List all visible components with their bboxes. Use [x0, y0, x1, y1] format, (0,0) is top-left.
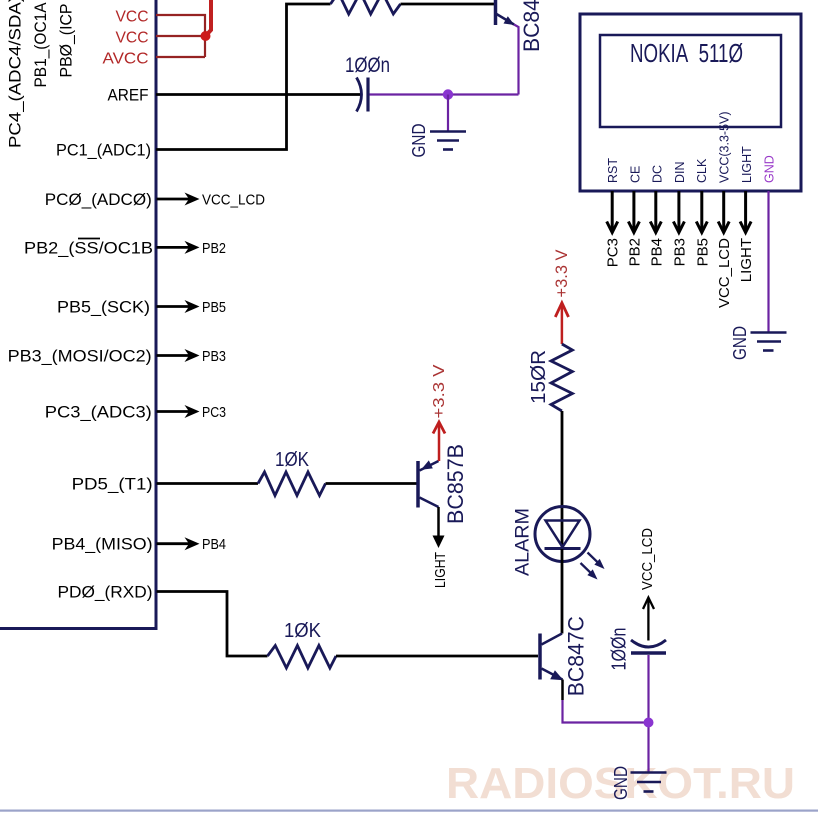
VCC net red wires — [156, 15, 205, 57]
wire R1 to Q1 base — [401, 3, 495, 6]
svg-text:VCC(3.3-5V): VCC(3.3-5V) — [718, 111, 732, 183]
svg-text:PBØ_(ICP: PBØ_(ICP — [57, 4, 76, 78]
svg-text:CE: CE — [628, 166, 642, 183]
wire Q1 emitter to AREF net (purple) — [514, 25, 519, 95]
svg-text:PB4: PB4 — [202, 536, 226, 553]
svg-text:PC3: PC3 — [202, 404, 226, 421]
svg-text:GND: GND — [409, 124, 429, 158]
arrow up to VCC_LCD — [643, 598, 654, 641]
svg-text:PB3_(MOSI/OC2): PB3_(MOSI/OC2) — [8, 347, 152, 366]
svg-text:PC3_(ADC3): PC3_(ADC3) — [45, 403, 152, 422]
svg-text:PB4: PB4 — [648, 238, 665, 266]
svg-text:VCC: VCC — [116, 30, 149, 47]
svg-text:VCC_LCD: VCC_LCD — [716, 238, 733, 308]
svg-text:PDØ_(RXD): PDØ_(RXD) — [58, 583, 153, 602]
svg-text:PB3: PB3 — [202, 348, 226, 365]
display window — [600, 35, 781, 127]
svg-text:PB2_(SS/OC1B: PB2_(SS/OC1B — [24, 238, 153, 257]
svg-text:PB1_(OC1A: PB1_(OC1A — [31, 2, 50, 88]
svg-text:PB2: PB2 — [626, 238, 643, 266]
module pin arrows down — [607, 191, 751, 233]
wire AREF to C1 — [156, 93, 361, 96]
svg-text:+3.3 V: +3.3 V — [552, 249, 571, 298]
svg-text:+3.3 V: +3.3 V — [431, 364, 448, 418]
junction dot — [443, 89, 453, 99]
transistor Q1 BC847C (top, clipped) — [496, 0, 515, 25]
purple wire C2 to junction — [647, 655, 649, 772]
LED emission arrows — [581, 553, 604, 579]
arrow PB5 out — [157, 300, 200, 313]
module GND wire (purple) — [767, 191, 769, 332]
svg-text:1ØØn: 1ØØn — [345, 54, 390, 77]
arrow PB2 out — [157, 241, 200, 254]
svg-text:DC: DC — [651, 165, 665, 183]
wire PD0 bend to R4 — [157, 592, 268, 657]
svg-text:BC847C: BC847C — [519, 0, 544, 52]
svg-text:ALARM: ALARM — [513, 508, 534, 576]
wire LED to Q3 collector — [561, 549, 564, 634]
svg-text:VCC_LCD: VCC_LCD — [639, 528, 656, 590]
svg-text:AVCC: AVCC — [103, 51, 149, 68]
LED D1 ALARM — [535, 507, 590, 562]
Q2 collector wire to LIGHT arrow — [437, 507, 440, 536]
wire PD5 to R2 — [157, 482, 259, 485]
svg-text:NOKIA 511Ø: NOKIA 511Ø — [630, 38, 743, 68]
Q3 emitter wire — [561, 680, 564, 701]
svg-text:LIGHT: LIGHT — [740, 146, 754, 183]
overline SS — [78, 238, 100, 240]
svg-text:1ØK: 1ØK — [275, 449, 310, 471]
svg-text:PD5_(T1): PD5_(T1) — [72, 475, 153, 494]
svg-text:PB2: PB2 — [202, 240, 226, 257]
svg-text:BC857B: BC857B — [443, 444, 468, 524]
arrow PC0 out — [157, 193, 200, 206]
svg-text:GND: GND — [730, 326, 750, 360]
wire R2 to Q2 base — [326, 482, 417, 485]
wire to ground — [447, 95, 449, 132]
svg-text:PB5: PB5 — [202, 299, 226, 316]
resistor R1 (top, clipped) — [331, 0, 401, 14]
+3.3V supply arrow (red) at Q2 emitter — [433, 422, 445, 461]
ground GND3 — [631, 773, 667, 792]
transistor Q2 BC857B — [418, 460, 439, 507]
svg-text:VCC_LCD: VCC_LCD — [202, 192, 265, 209]
ground GND2 — [751, 333, 787, 351]
svg-text:PB3: PB3 — [671, 238, 688, 266]
purple net C1 to GND and Q1 — [370, 93, 519, 95]
module pin labels — [606, 111, 777, 183]
svg-text:BC847C: BC847C — [564, 616, 589, 696]
ground GND1 — [430, 132, 466, 150]
svg-text:PCØ_(ADCØ): PCØ_(ADCØ) — [45, 190, 152, 209]
svg-text:RST: RST — [606, 158, 620, 183]
wire R4 to Q3 base — [336, 655, 538, 658]
net labels under module arrows — [605, 238, 755, 308]
svg-text:PC4_(ADC4/SDA): PC4_(ADC4/SDA) — [6, 0, 25, 148]
svg-text:LIGHT: LIGHT — [738, 238, 755, 282]
svg-text:15ØR: 15ØR — [528, 350, 550, 404]
svg-text:VCC: VCC — [116, 9, 149, 26]
wire PC1 up and to resistor R1 — [156, 4, 331, 150]
svg-text:PB5_(SCK): PB5_(SCK) — [57, 298, 150, 317]
svg-text:GND: GND — [611, 766, 631, 800]
svg-text:DIN: DIN — [673, 161, 687, 183]
svg-text:PC1_(ADC1): PC1_(ADC1) — [56, 141, 151, 160]
wire R3 to LED — [561, 411, 564, 549]
junction dot VCC — [201, 31, 211, 41]
VCC supply riser (thick) — [206, 0, 212, 36]
svg-text:1ØØn: 1ØØn — [609, 628, 631, 671]
arrow PC3 out — [157, 405, 200, 418]
junction dot — [644, 718, 654, 728]
transistor Q3 BC847C — [540, 634, 564, 681]
arrow PB4 out — [157, 537, 200, 550]
svg-text:LIGHT: LIGHT — [432, 552, 449, 588]
NOKIA 5110 module block — [580, 14, 801, 191]
arrow PB3 out — [157, 349, 200, 362]
svg-text:PB4_(MISO): PB4_(MISO) — [52, 535, 153, 554]
IC U1 (microcontroller) border — [0, 0, 156, 629]
svg-text:GND: GND — [763, 155, 777, 183]
svg-text:CLK: CLK — [695, 158, 709, 183]
svg-text:1ØK: 1ØK — [284, 620, 322, 642]
svg-text:AREF: AREF — [108, 86, 149, 105]
svg-text:PB5: PB5 — [694, 238, 711, 266]
bottom border line — [0, 810, 818, 812]
svg-text:PC3: PC3 — [605, 238, 622, 267]
